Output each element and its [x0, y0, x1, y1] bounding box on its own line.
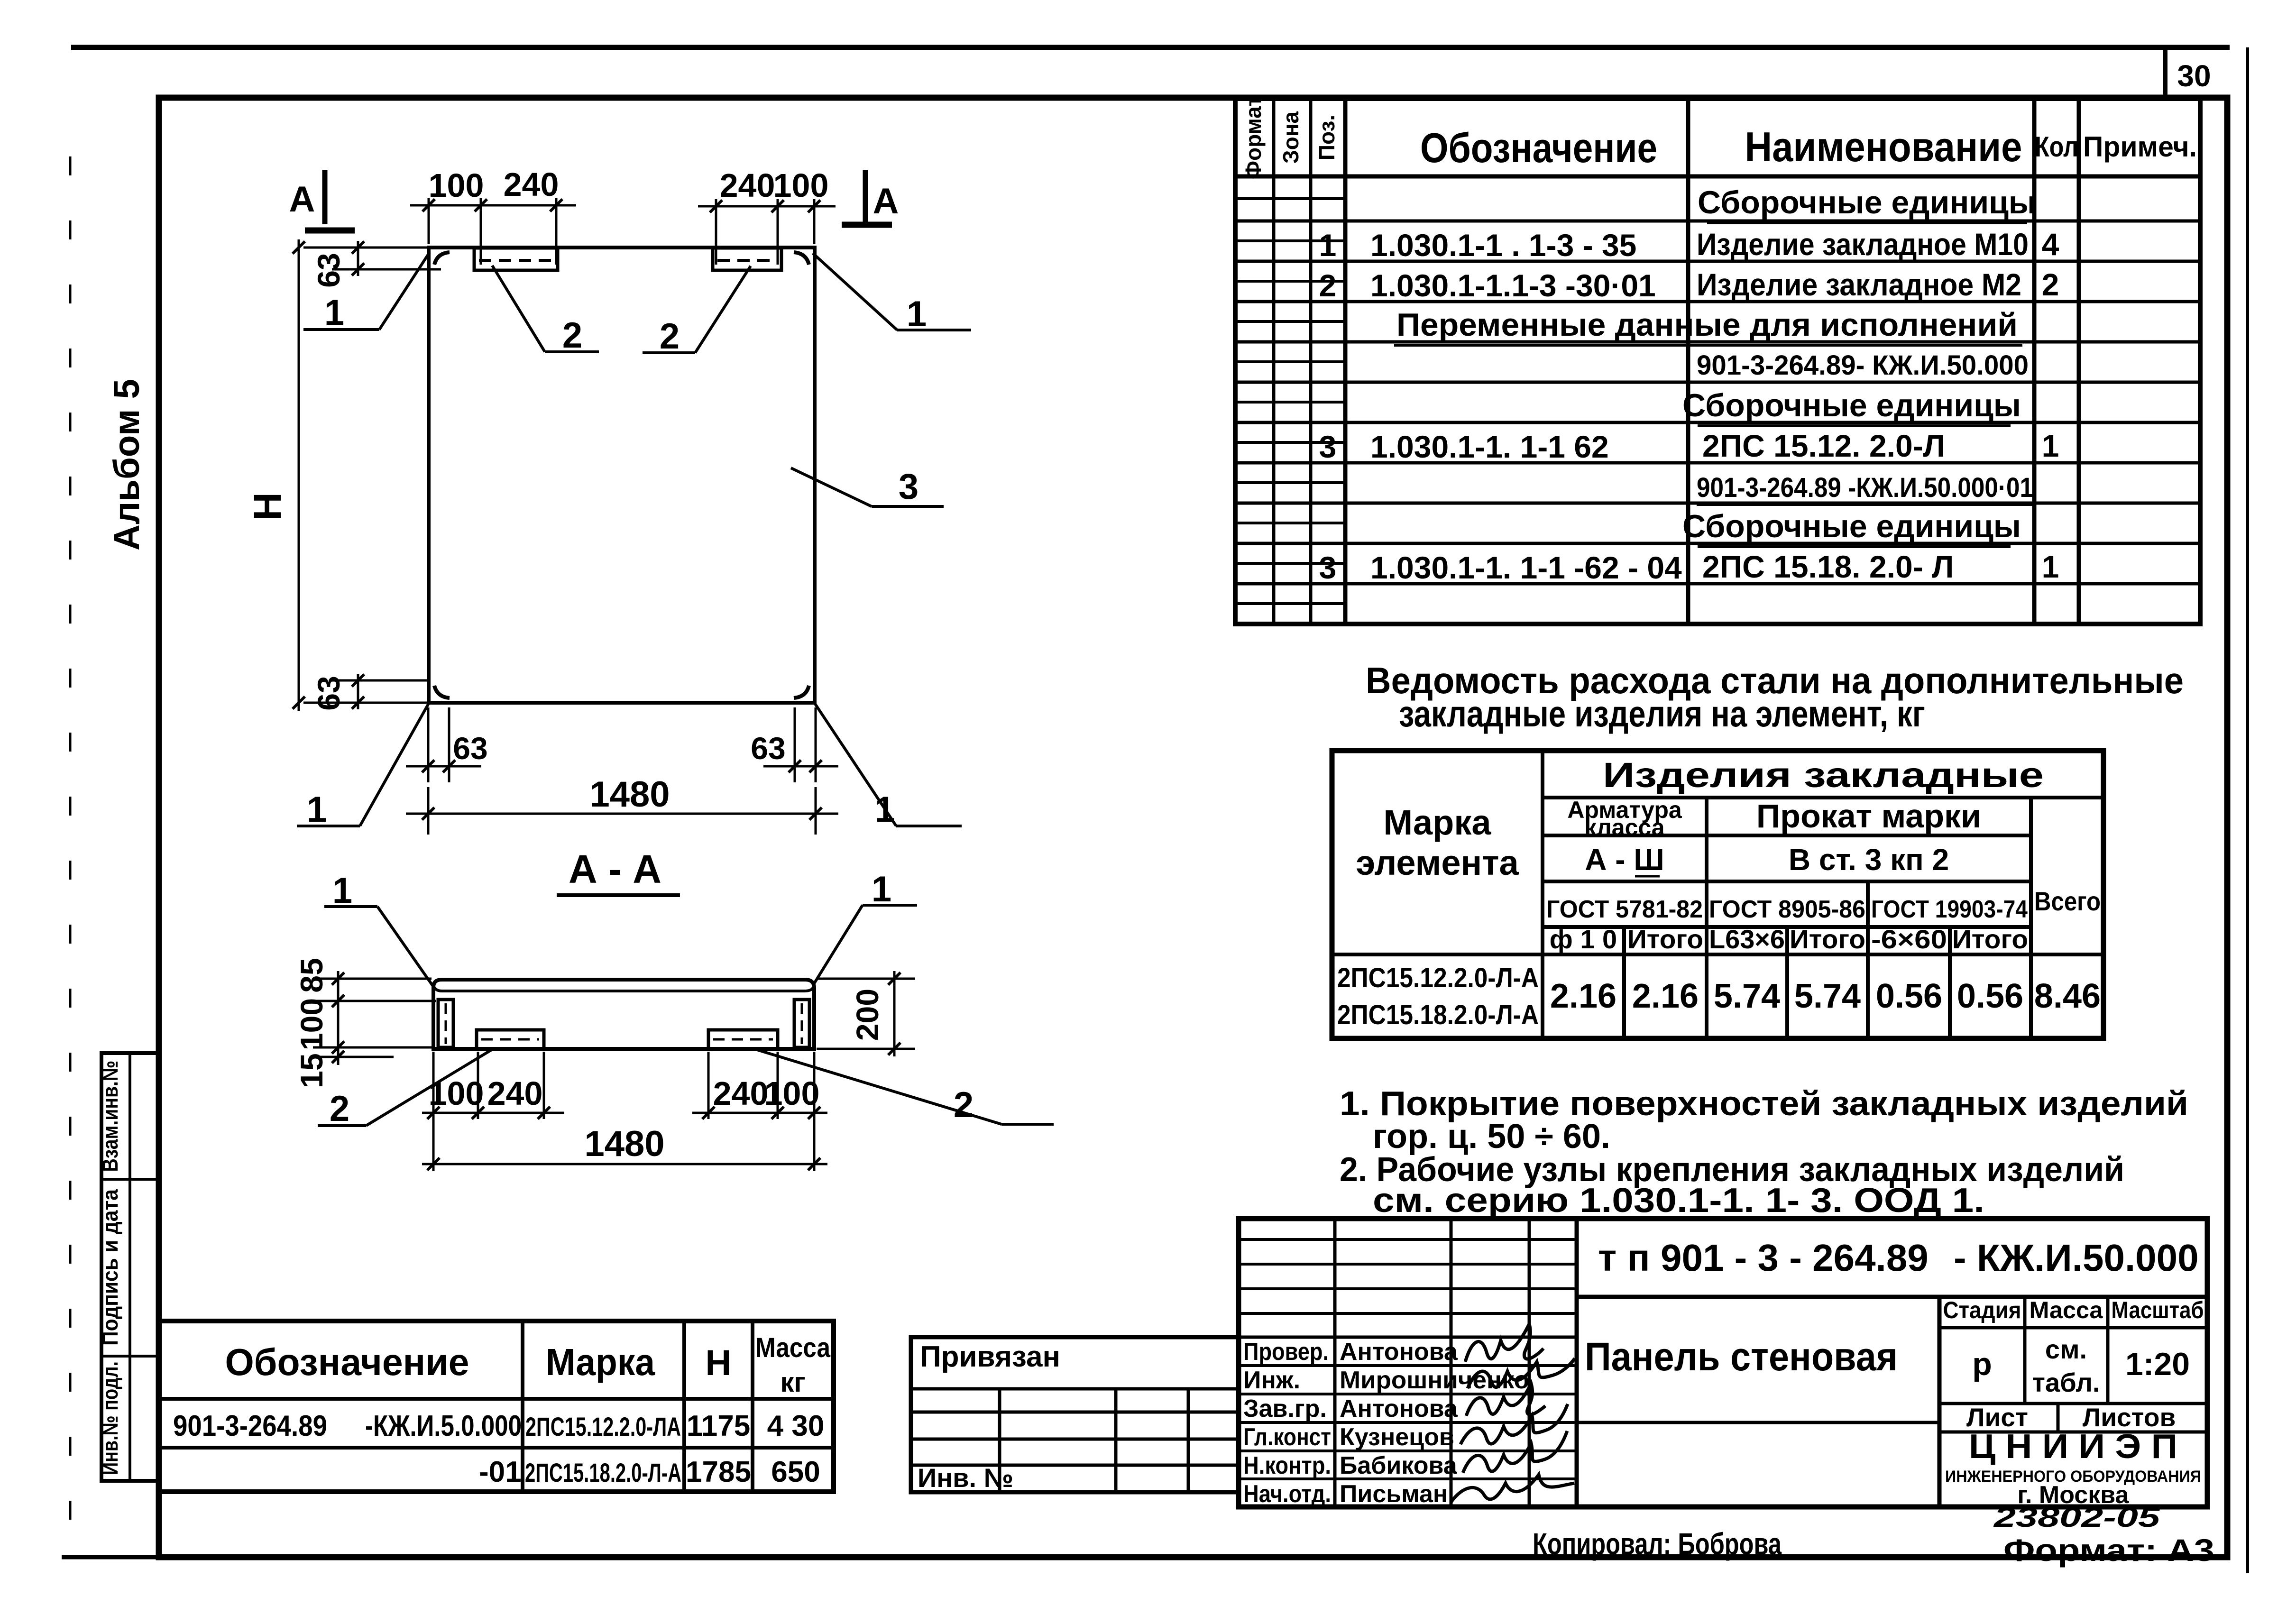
- svg-text:Формат: А3: Формат: А3: [2003, 1532, 2214, 1568]
- svg-text:2: 2: [1319, 268, 1337, 303]
- svg-text:2: 2: [2042, 267, 2059, 302]
- svg-text:Н: Н: [706, 1343, 732, 1383]
- section dim 1480: [422, 1124, 827, 1170]
- svg-text:см.: см.: [2045, 1334, 2087, 1364]
- section mark A right: [842, 170, 899, 225]
- row pos3b: [1319, 549, 2059, 585]
- svg-text:Сборочные единицы: Сборочные единицы: [1682, 387, 2021, 423]
- svg-text:Зав.гр.: Зав.гр.: [1243, 1395, 1327, 1422]
- svg-text:закладные изделия на элемент,: закладные изделия на элемент, кг: [1399, 693, 1925, 734]
- svg-text:2: 2: [330, 1089, 349, 1129]
- svg-text:2.16: 2.16: [1550, 977, 1616, 1015]
- svg-text:1.030.1-1.1-3 -30·01: 1.030.1-1.1-3 -30·01: [1370, 268, 1656, 303]
- svg-text:Ц Н И И Э П: Ц Н И И Э П: [1969, 1428, 2177, 1466]
- row: Sborochnye edinicy 2: [1682, 387, 2021, 426]
- svg-text:ГОСТ 8905-86: ГОСТ 8905-86: [1709, 896, 1865, 923]
- svg-text:Изделие закладное М10: Изделие закладное М10: [1697, 227, 2029, 262]
- svg-text:2ПС15.18.2.0-Л-А: 2ПС15.18.2.0-Л-А: [1337, 1000, 1539, 1030]
- svg-text:ГОСТ 19903-74: ГОСТ 19903-74: [1871, 896, 2028, 923]
- svg-text:Изделия закладные: Изделия закладные: [1603, 755, 2044, 795]
- svg-text:8.46: 8.46: [2034, 977, 2101, 1015]
- svg-text:901-3-264.89- КЖ.И.50.000: 901-3-264.89- КЖ.И.50.000: [1697, 350, 2029, 381]
- specification table: [1235, 96, 2200, 624]
- svg-text:А: А: [873, 181, 899, 221]
- svg-text:см. серию 1.030.1-1. 1- 3. ОО: см. серию 1.030.1-1. 1- 3. ООД 1.: [1373, 1182, 1984, 1220]
- svg-text:Н.контр.: Н.контр.: [1243, 1452, 1331, 1479]
- svg-text:5.74: 5.74: [1714, 977, 1780, 1015]
- bottom plate 2 section left: [477, 1030, 544, 1049]
- svg-text:2ПС 15.18. 2.0- Л: 2ПС 15.18. 2.0- Л: [1702, 549, 1954, 584]
- row: Sborochnye edinicy 1: [1698, 184, 2036, 223]
- left dims 85/100/15: [294, 958, 436, 1088]
- H dimension left: [246, 239, 427, 711]
- svg-text:Мирошниченко: Мирошниченко: [1340, 1367, 1529, 1394]
- embedded plate 2 top-right: [713, 248, 781, 270]
- svg-text:3: 3: [1319, 429, 1337, 464]
- svg-text:Сборочные единицы: Сборочные единицы: [1698, 184, 2036, 220]
- leader 2 section left: [318, 1049, 493, 1129]
- svg-text:2ПС 15.12. 2.0-Л: 2ПС 15.12. 2.0-Л: [1702, 428, 1945, 463]
- svg-text:Формат: Формат: [1241, 96, 1266, 179]
- leader 1 top-right: [813, 253, 971, 334]
- embedded angle 1 section left: [438, 1000, 453, 1047]
- svg-text:- КЖ.И.50.000: - КЖ.И.50.000: [1954, 1237, 2199, 1279]
- dim line 240/100 top-right: [698, 167, 836, 265]
- svg-text:1.030.1-1. 1-1 62: 1.030.1-1. 1-1 62: [1370, 429, 1609, 464]
- leader 1 top-left: [303, 252, 430, 333]
- row pos3: [1319, 428, 2059, 464]
- svg-text:Обозначение: Обозначение: [1420, 124, 1657, 171]
- svg-text:-01: -01: [479, 1456, 522, 1488]
- svg-text:4 30: 4 30: [767, 1410, 825, 1442]
- svg-text:гор. ц. 50 ÷ 60.: гор. ц. 50 ÷ 60.: [1373, 1118, 1610, 1156]
- svg-text:1. Покрытие поверхностей зак: 1. Покрытие поверхностей закладных издел…: [1340, 1085, 2188, 1123]
- svg-text:Примеч.: Примеч.: [2083, 131, 2197, 163]
- svg-text:L63×6: L63×6: [1709, 924, 1785, 954]
- svg-text:63: 63: [751, 731, 785, 766]
- row: Peremennye dannye: [1394, 307, 2022, 345]
- svg-text:85: 85: [294, 958, 329, 992]
- svg-text:Итого: Итого: [1790, 924, 1865, 954]
- svg-text:Кузнецов: Кузнецов: [1340, 1423, 1454, 1451]
- svg-text:63: 63: [311, 676, 346, 710]
- svg-text:2: 2: [660, 316, 680, 357]
- leader 1 section left: [324, 871, 433, 987]
- svg-text:240: 240: [713, 1075, 769, 1112]
- svg-text:2.16: 2.16: [1632, 977, 1699, 1015]
- svg-text:1480: 1480: [584, 1124, 664, 1164]
- corner angle bracket top-right: [794, 252, 809, 265]
- svg-text:100: 100: [764, 1075, 820, 1112]
- leader 1 section right: [814, 869, 917, 983]
- left grid: [1239, 1238, 1577, 1241]
- svg-text:1.030.1-1. 1-1 -62 - 04: 1.030.1-1. 1-1 -62 - 04: [1370, 550, 1682, 585]
- svg-text:100: 100: [429, 167, 484, 204]
- svg-text:240: 240: [504, 166, 559, 203]
- row: 901-3-264.89-01: [1697, 472, 2034, 505]
- svg-text:23802-05: 23802-05: [1993, 1502, 2160, 1533]
- bottom margin texts: [1533, 1502, 2214, 1568]
- svg-text:2ПС15.12.2.0-ЛА: 2ПС15.12.2.0-ЛА: [525, 1412, 681, 1441]
- paper left edge dashed line: [69, 156, 72, 1560]
- paper top edge line: [71, 45, 2230, 50]
- svg-text:р: р: [1972, 1346, 1992, 1382]
- paper right edge line: [2246, 47, 2249, 1573]
- panel outline with corner notches: [429, 248, 815, 703]
- svg-text:Привязан: Привязан: [920, 1340, 1060, 1373]
- page number box: [2165, 47, 2227, 98]
- svg-text:1175: 1175: [687, 1410, 751, 1442]
- svg-text:В ст. 3 кп 2: В ст. 3 кп 2: [1789, 843, 1949, 877]
- right dim 200: [817, 971, 915, 1056]
- svg-text:901-3-264.89: 901-3-264.89: [173, 1410, 327, 1442]
- svg-text:Кол: Кол: [2035, 131, 2078, 163]
- svg-text:2: 2: [562, 315, 582, 356]
- svg-text:ф 1 0: ф 1 0: [1550, 924, 1617, 954]
- svg-text:Альбом 5: Альбом 5: [107, 379, 147, 551]
- svg-text:-6×60: -6×60: [1871, 924, 1947, 954]
- bottom plate 2 section right: [708, 1030, 778, 1049]
- svg-text:А - Ш: А - Ш: [1585, 843, 1664, 877]
- svg-text:Всего: Всего: [2034, 886, 2101, 916]
- svg-text:100: 100: [294, 998, 329, 1050]
- svg-text:240: 240: [720, 167, 775, 204]
- svg-text:Панель стеновая: Панель стеновая: [1585, 1334, 1898, 1379]
- svg-text:1: 1: [1319, 228, 1337, 263]
- svg-text:класса: класса: [1584, 814, 1665, 841]
- leader 1 bottom-left: [297, 702, 430, 830]
- svg-text:Взам.инв.№: Взам.инв.№: [98, 1061, 122, 1172]
- section bottom dims 240/100 right: [692, 1052, 827, 1171]
- svg-text:Масса: Масса: [2030, 1297, 2103, 1323]
- right part: [1577, 1295, 2207, 1299]
- row: 901-3-264.89 KZH.I.50.000: [1697, 350, 2030, 382]
- slab top inner line: [434, 987, 813, 991]
- svg-text:2: 2: [954, 1085, 974, 1125]
- svg-text:Нач.отд.: Нач.отд.: [1243, 1480, 1331, 1508]
- row: Sborochnye edinicy 3: [1682, 508, 2021, 547]
- svg-text:0.56: 0.56: [1876, 977, 1942, 1015]
- dim 1480 plan bottom: [406, 774, 838, 835]
- svg-text:15: 15: [294, 1053, 329, 1088]
- svg-text:Бабикова: Бабикова: [1340, 1452, 1458, 1479]
- leader 3 panel face: [791, 467, 944, 507]
- svg-text:Обозначение: Обозначение: [225, 1341, 469, 1383]
- svg-text:Переменные данные для исполнен: Переменные данные для исполнений: [1396, 307, 2018, 343]
- leader 2 left plate: [492, 266, 599, 356]
- corner angle bracket bottom-left: [434, 686, 450, 698]
- svg-text:100: 100: [773, 167, 829, 204]
- svg-text:1: 1: [324, 293, 344, 333]
- svg-text:1: 1: [2042, 428, 2059, 463]
- dim 63 bottom-left: [311, 674, 427, 711]
- svg-text:ГОСТ 5781-82: ГОСТ 5781-82: [1546, 896, 1703, 923]
- svg-text:1785: 1785: [686, 1456, 751, 1488]
- svg-text:5.74: 5.74: [1794, 977, 1861, 1015]
- svg-text:1: 1: [872, 869, 891, 909]
- svg-text:Прокат марки: Прокат марки: [1756, 798, 1981, 835]
- embedded angle 1 section right: [794, 1000, 809, 1047]
- corner angle bracket bottom-right: [794, 686, 809, 698]
- marks table: [159, 1321, 834, 1492]
- steel consumption title: [1366, 660, 2184, 734]
- dim 63 bottom pair right: [751, 707, 838, 782]
- svg-text:Антонова: Антонова: [1340, 1395, 1458, 1422]
- svg-text:Итого: Итого: [1952, 924, 2028, 954]
- svg-text:Стадия: Стадия: [1943, 1297, 2021, 1323]
- dim 63 bottom pair left: [406, 707, 488, 782]
- svg-text:Марка: Марка: [546, 1341, 655, 1383]
- leader 1 bottom-right: [814, 702, 962, 830]
- svg-text:Н: Н: [246, 492, 289, 520]
- section A-A view: [294, 847, 1054, 1171]
- section title A-A: [557, 847, 680, 895]
- dim 63 top-left: [311, 241, 441, 288]
- svg-text:1480: 1480: [589, 774, 670, 815]
- corner angle bracket top-left: [434, 252, 450, 265]
- privyazan block: [911, 1337, 1239, 1493]
- svg-text:Зона: Зона: [1278, 111, 1303, 164]
- svg-text:3: 3: [899, 467, 918, 507]
- svg-text:Изделие закладное М2: Изделие закладное М2: [1697, 267, 2021, 302]
- svg-text:4: 4: [2042, 227, 2059, 262]
- svg-text:Письман: Письман: [1340, 1480, 1448, 1508]
- svg-text:Антонова: Антонова: [1340, 1338, 1458, 1366]
- svg-text:элемента: элемента: [1356, 843, 1519, 882]
- svg-text:1:20: 1:20: [2125, 1346, 2190, 1382]
- svg-text:Масштаб: Масштаб: [2112, 1297, 2204, 1323]
- svg-text:2ПС15.12.2.0-Л-А: 2ПС15.12.2.0-Л-А: [1337, 963, 1539, 993]
- svg-text:63: 63: [311, 253, 346, 287]
- paper bottom edge extension: [62, 1555, 161, 1560]
- leader 2 section right: [754, 1049, 1054, 1125]
- svg-text:Сборочные единицы: Сборочные единицы: [1682, 508, 2021, 544]
- row pos2: [1319, 267, 2059, 303]
- svg-text:Марка: Марка: [1383, 803, 1491, 842]
- svg-text:1: 1: [2042, 549, 2059, 584]
- svg-text:Инв.№ подл.: Инв.№ подл.: [98, 1361, 122, 1475]
- row pos1: [1319, 227, 2059, 263]
- svg-text:А - А: А - А: [569, 847, 661, 891]
- title block stamp: [1239, 1219, 2207, 1509]
- svg-text:240: 240: [487, 1075, 543, 1112]
- svg-text:Провер.: Провер.: [1243, 1338, 1329, 1366]
- section mark A left: [289, 170, 355, 230]
- svg-text:Итого: Итого: [1627, 924, 1703, 954]
- steel consumption table: [1332, 751, 2103, 1038]
- svg-text:Масса: Масса: [755, 1332, 831, 1363]
- svg-text:А: А: [289, 179, 315, 220]
- svg-text:1: 1: [875, 789, 895, 830]
- svg-text:Инж.: Инж.: [1243, 1367, 1300, 1394]
- svg-text:1: 1: [307, 789, 327, 830]
- embedded plate 2 top-left: [474, 248, 558, 270]
- svg-text:650: 650: [771, 1456, 820, 1488]
- svg-text:1: 1: [332, 871, 352, 911]
- svg-text:Копировал: Боброва: Копировал: Боброва: [1533, 1527, 1782, 1561]
- svg-text:901-3-264.89 -КЖ.И.50.000·01: 901-3-264.89 -КЖ.И.50.000·01: [1697, 472, 2033, 503]
- svg-text:3: 3: [1319, 550, 1337, 585]
- svg-text:100: 100: [429, 1075, 484, 1112]
- svg-text:Поз.: Поз.: [1314, 115, 1339, 160]
- left sidebar strip: [98, 1053, 159, 1481]
- svg-text:Инв. №: Инв. №: [918, 1463, 1013, 1493]
- svg-text:30: 30: [2177, 59, 2211, 93]
- dim line 100/240 top-left: [410, 166, 576, 265]
- svg-text:63: 63: [453, 731, 487, 766]
- svg-text:-КЖ.И.5.0.000: -КЖ.И.5.0.000: [365, 1410, 522, 1442]
- signatures: [1465, 1324, 1543, 1362]
- leader 2 right plate: [643, 266, 751, 357]
- svg-text:Подпись и дата: Подпись и дата: [98, 1189, 122, 1346]
- svg-text:т п 901 - 3 - 264.89: т п 901 - 3 - 264.89: [1598, 1237, 1929, 1279]
- svg-text:Наименование: Наименование: [1745, 123, 2022, 170]
- panel plan view: [246, 166, 971, 835]
- notes text: [1340, 1085, 2188, 1220]
- svg-text:Гл.конст: Гл.конст: [1243, 1423, 1331, 1451]
- svg-text:табл.: табл.: [2032, 1367, 2100, 1397]
- svg-text:1.030.1-1 . 1-3 - 35: 1.030.1-1 . 1-3 - 35: [1370, 228, 1636, 263]
- section bottom dims 100/240 left: [422, 1052, 564, 1171]
- svg-text:0.56: 0.56: [1957, 977, 2023, 1015]
- svg-text:2ПС15.18.2.0-Л-А: 2ПС15.18.2.0-Л-А: [525, 1458, 681, 1487]
- svg-text:200: 200: [850, 989, 885, 1041]
- svg-text:кг: кг: [780, 1367, 805, 1398]
- svg-text:1: 1: [907, 294, 927, 334]
- slab outline: [433, 980, 814, 1049]
